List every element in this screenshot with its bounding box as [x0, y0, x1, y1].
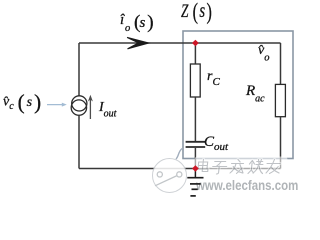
capacitor C_out plates	[186, 141, 206, 143]
wire: top horizontal from left branch to right branch	[79, 42, 281, 44]
watermark logo slash	[155, 176, 177, 186]
label Z(s)	[181, 0, 212, 23]
control arrow from v_c(s) label to source (light blue)	[47, 104, 64, 106]
resistor R_ac body	[275, 84, 285, 116]
current source direction arrow	[89, 99, 91, 120]
label I_out	[99, 101, 116, 120]
arrowhead of output current on top wire	[127, 37, 149, 48]
current source I_out (two overlapping circles)	[72, 96, 87, 111]
watermark url text	[196, 178, 298, 192]
junction node (bottom, red)	[192, 165, 199, 172]
wire: C_out to bottom wire	[194, 148, 196, 169]
label v_c(s)	[3, 92, 41, 113]
label r_C	[207, 70, 220, 88]
junction node (top, red)	[192, 40, 199, 47]
label R_ac	[246, 84, 265, 105]
wire: left vertical lower segment	[78, 115, 80, 168]
wire: bottom horizontal	[79, 168, 281, 170]
label i_o(s)	[120, 14, 160, 39]
wire: left vertical upper segment	[78, 43, 80, 96]
impedance block Z(s) box	[183, 31, 293, 159]
wire: right vertical lower (R_ac to bottom)	[280, 117, 282, 169]
resistor r_C body	[190, 64, 200, 97]
label C_out	[204, 135, 228, 153]
watermark logo eyes	[157, 172, 162, 177]
wire: r_C branch top stub	[194, 43, 196, 64]
wire: r_C to C_out	[194, 97, 196, 141]
watermark	[0, 0, 300, 201]
wire: right vertical upper (to R_ac)	[280, 43, 282, 85]
watermark logo circle	[153, 159, 187, 193]
watermark chinese characters (hand drawn)	[0, 0, 300, 201]
ground symbol	[194, 169, 196, 178]
label v_o	[258, 44, 269, 64]
watermark logo tail	[176, 149, 182, 160]
